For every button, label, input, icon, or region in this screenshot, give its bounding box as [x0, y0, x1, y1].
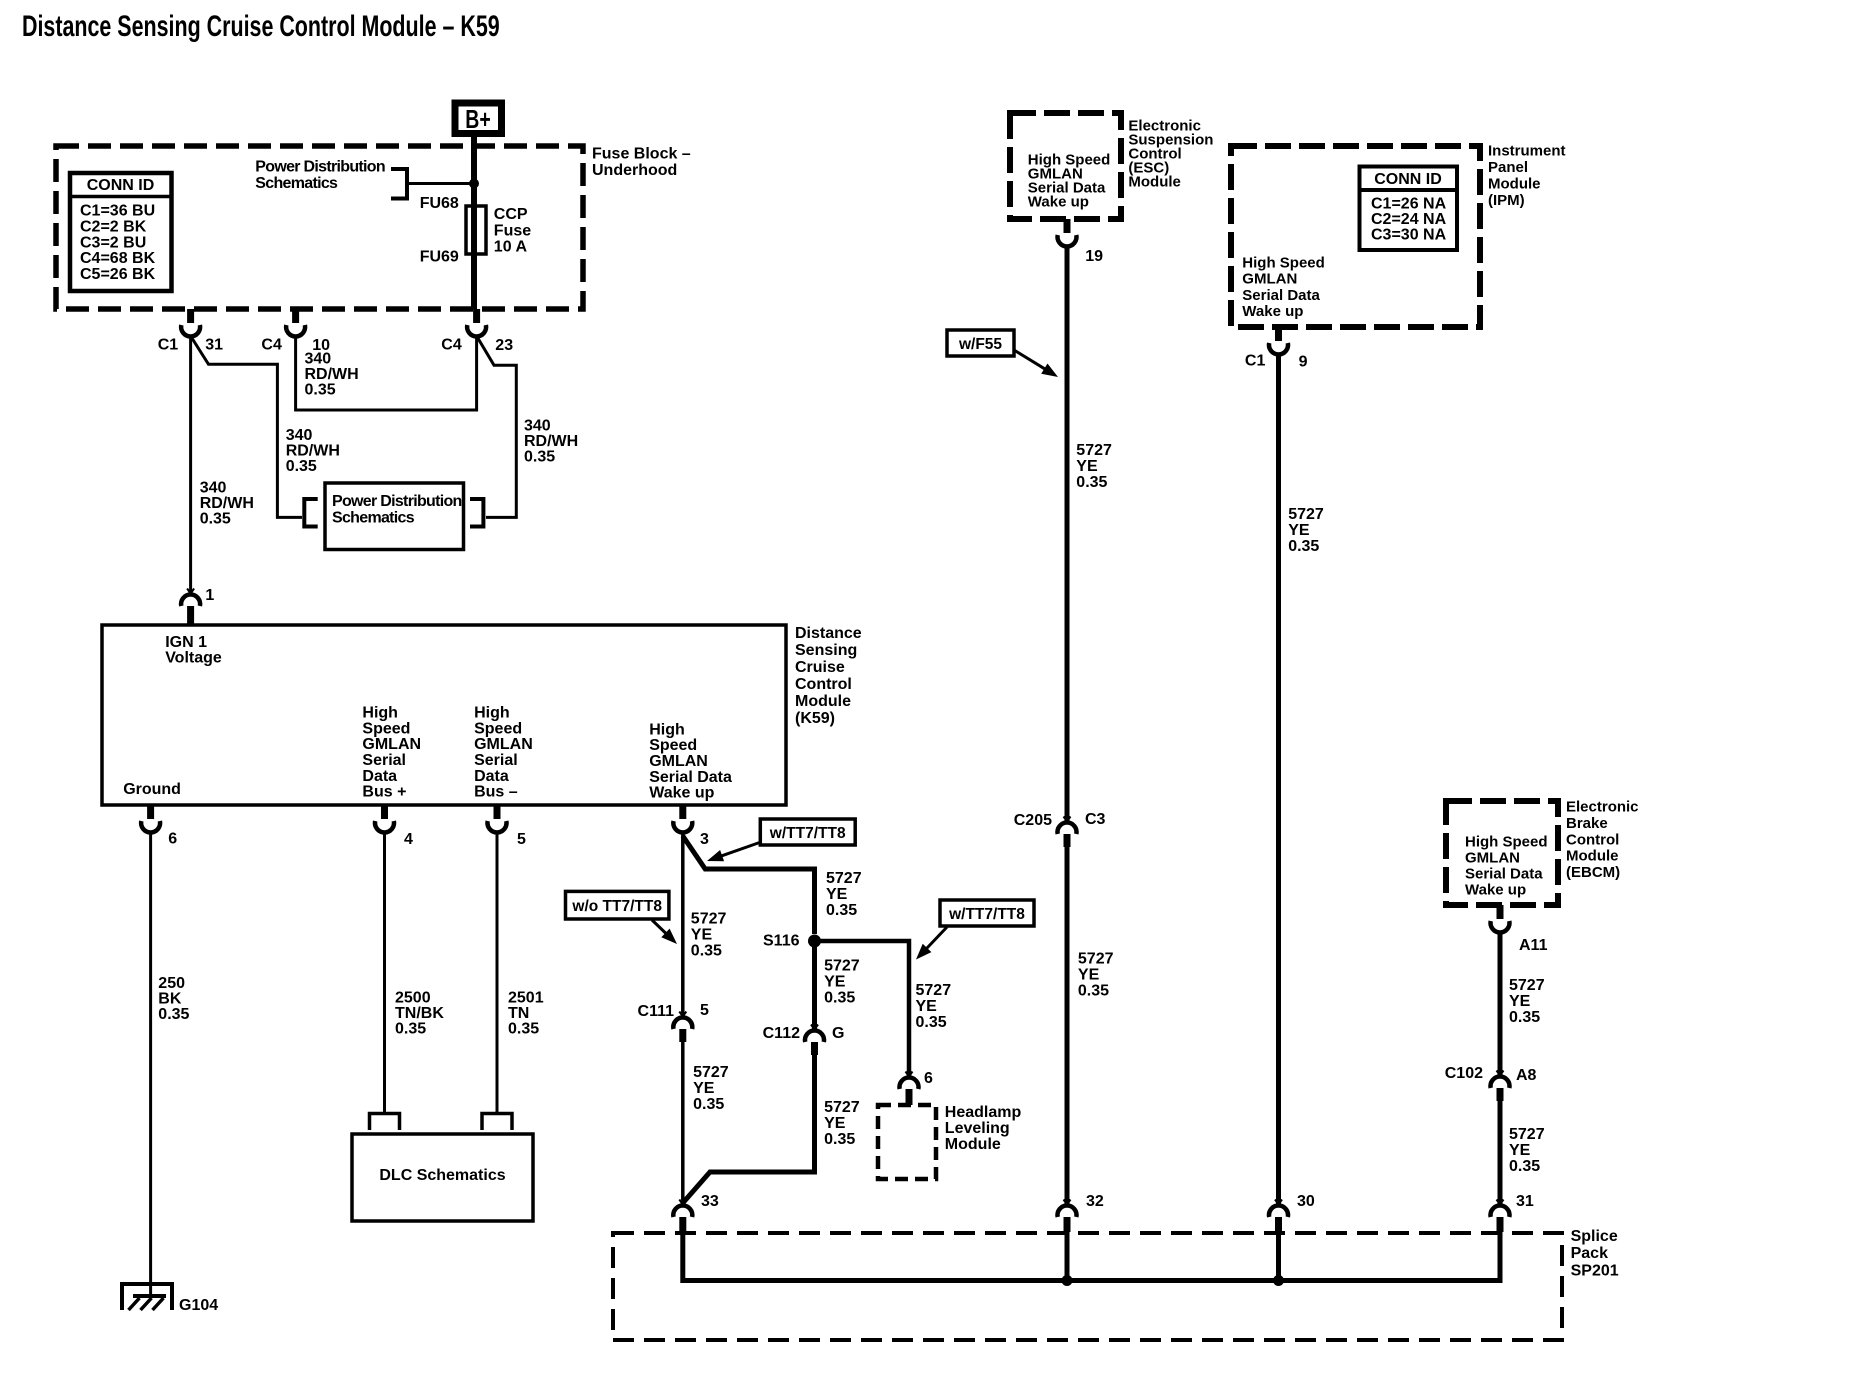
- svg-text:250: 250: [158, 975, 185, 992]
- svg-text:Wake up: Wake up: [1465, 882, 1526, 899]
- label 5 (C111 pin): [700, 1002, 709, 1019]
- label C112: [763, 1025, 800, 1042]
- svg-text:0.35: 0.35: [691, 943, 722, 960]
- svg-text:Wake up: Wake up: [649, 785, 714, 802]
- connector pin 32 (splice pack): [1058, 1200, 1077, 1233]
- wire 2500 TN/BK (pin 4 to DLC): [383, 833, 386, 1114]
- svg-text:DLC Schematics: DLC Schematics: [379, 1167, 505, 1184]
- label Splice Pack SP201: [1571, 1228, 1619, 1280]
- connector pin 31 (splice pack): [1491, 1200, 1510, 1233]
- svg-text:GMLAN: GMLAN: [1242, 271, 1297, 288]
- svg-text:GMLAN: GMLAN: [362, 736, 421, 753]
- connector pin 30 (splice pack): [1269, 1200, 1288, 1233]
- svg-text:Module: Module: [945, 1136, 1001, 1153]
- svg-text:Speed: Speed: [649, 737, 697, 754]
- svg-text:Data: Data: [362, 768, 397, 785]
- svg-text:1: 1: [205, 587, 214, 604]
- svg-text:w/TT7/TT8: w/TT7/TT8: [948, 906, 1025, 923]
- connector pin 5 (Bus -): [488, 805, 507, 832]
- svg-text:C4=68 BK: C4=68 BK: [80, 250, 156, 267]
- wire B+ feed (340 circuit through fuse): [471, 137, 477, 309]
- svg-text:Schematics: Schematics: [255, 175, 338, 192]
- label G104: [179, 1297, 218, 1314]
- svg-text:RD/WH: RD/WH: [524, 433, 578, 450]
- svg-text:Power Distribution: Power Distribution: [255, 159, 385, 176]
- label Electronic Suspension Control (ESC) Module: [1128, 118, 1213, 191]
- connector C1 pin 31: [181, 309, 200, 336]
- label 31: [205, 337, 223, 354]
- svg-text:Serial Data: Serial Data: [1465, 866, 1543, 883]
- svg-text:Bus +: Bus +: [362, 784, 406, 801]
- label 5727 YE 0.35 (below C205): [1078, 951, 1114, 1000]
- wire 250 BK to ground: [149, 833, 152, 1296]
- svg-text:w/o TT7/TT8: w/o TT7/TT8: [571, 898, 662, 915]
- svg-text:Fuse Block –: Fuse Block –: [592, 146, 691, 163]
- callout w/TT7/TT8 (pin 3): [707, 819, 855, 861]
- junction dot (pin 30 bus): [1273, 1275, 1284, 1286]
- svg-text:Headlamp: Headlamp: [945, 1104, 1022, 1121]
- svg-text:0.35: 0.35: [200, 511, 231, 528]
- svg-text:YE: YE: [824, 974, 846, 991]
- wire S116 to C112: [812, 946, 817, 1030]
- label 31: [1516, 1193, 1534, 1210]
- label 6 (K59 pin): [168, 830, 177, 847]
- svg-text:w/TT7/TT8: w/TT7/TT8: [769, 825, 846, 842]
- svg-text:C1=26 NA: C1=26 NA: [1371, 196, 1447, 213]
- connector C111 pin 5: [673, 1012, 692, 1043]
- svg-text:C205: C205: [1014, 812, 1052, 829]
- svg-text:C3: C3: [1085, 811, 1106, 828]
- svg-text:TN/BK: TN/BK: [395, 1005, 444, 1022]
- svg-text:Underhood: Underhood: [592, 162, 677, 179]
- svg-text:5727: 5727: [826, 870, 862, 887]
- conn id table (IPM): [1360, 167, 1458, 251]
- label 5727 YE 0.35 (S116 upper): [826, 870, 862, 919]
- svg-text:C4: C4: [441, 337, 462, 354]
- svg-text:Module: Module: [1128, 174, 1181, 191]
- svg-text:32: 32: [1086, 1193, 1104, 1210]
- electronic suspension control module dashed box: [1010, 113, 1121, 219]
- svg-text:0.35: 0.35: [824, 990, 855, 1007]
- svg-text:Power Distribution: Power Distribution: [332, 493, 462, 510]
- wire C102 to splice pack pin 31: [1498, 1101, 1503, 1205]
- svg-text:Distance Sensing Cruise Contro: Distance Sensing Cruise Control Module –…: [22, 8, 500, 43]
- svg-text:C2=2 BK: C2=2 BK: [80, 219, 147, 236]
- power distribution schematics reference box: [325, 483, 464, 550]
- label FU69: [420, 249, 459, 266]
- svg-text:Schematics: Schematics: [332, 509, 415, 526]
- junction dot (B+ feed): [469, 179, 479, 189]
- fuse block - underhood (dashed box): [56, 146, 583, 309]
- svg-text:0.35: 0.35: [1509, 1009, 1540, 1026]
- wire 5727 YE (ESC to C205): [1065, 247, 1070, 822]
- connector pin 4 (Bus +): [375, 805, 394, 832]
- svg-text:Bus –: Bus –: [474, 784, 518, 801]
- svg-text:Serial: Serial: [474, 752, 518, 769]
- connector pin 6 (headlamp leveling module): [899, 1072, 918, 1106]
- connector pin 1 (K59 IGN 1): [181, 589, 200, 626]
- wire C4/23 branch to power distribution: [477, 336, 517, 517]
- svg-text:5: 5: [517, 831, 526, 848]
- bracket DLC pin 5: [482, 1114, 512, 1131]
- label 19: [1085, 248, 1103, 265]
- splice S116 junction dot: [808, 935, 821, 948]
- label 340 RD/WH 0.35 (C4/23 branch): [524, 418, 578, 466]
- svg-text:Instrument: Instrument: [1488, 143, 1566, 160]
- label High Speed GMLAN Serial Data Wake up (IPM): [1242, 255, 1325, 321]
- svg-text:Speed: Speed: [362, 720, 410, 737]
- bracket right (power distribution box): [470, 499, 483, 527]
- svg-text:10 A: 10 A: [494, 239, 528, 256]
- svg-text:RD/WH: RD/WH: [305, 366, 359, 383]
- svg-text:2501: 2501: [508, 990, 544, 1007]
- wire 5727 YE (EBCM to C102): [1498, 933, 1503, 1076]
- svg-text:5727: 5727: [824, 958, 860, 975]
- connector C1 pin 9 (IPM): [1269, 327, 1288, 354]
- svg-text:C1: C1: [1245, 353, 1266, 370]
- label 2500 TN/BK 0.35: [395, 990, 444, 1038]
- label 5727 YE 0.35 (pin3 trunk): [691, 911, 727, 960]
- svg-text:5: 5: [700, 1002, 709, 1019]
- svg-text:C3=2 BU: C3=2 BU: [80, 234, 146, 251]
- svg-text:YE: YE: [824, 1115, 846, 1132]
- svg-text:S116: S116: [763, 932, 800, 949]
- distance sensing cruise control module K59 box: [102, 625, 786, 805]
- connector pin 6 (Ground): [141, 805, 160, 832]
- svg-text:Serial Data: Serial Data: [649, 769, 732, 786]
- svg-text:5727: 5727: [916, 982, 952, 999]
- label 5727 YE 0.35 (below C112): [824, 1099, 860, 1148]
- callout w/TT7/TT8 (headlamp branch): [916, 900, 1034, 960]
- bracket DLC pin 4: [370, 1114, 400, 1131]
- connector pin A11 (EBCM): [1491, 905, 1510, 932]
- wire pin 32 to bus: [1065, 1232, 1070, 1281]
- connector pin 19 (ESC): [1058, 219, 1077, 246]
- svg-text:YE: YE: [1078, 967, 1100, 984]
- svg-text:Sensing: Sensing: [795, 642, 857, 659]
- svg-text:0.35: 0.35: [395, 1021, 426, 1038]
- label 30: [1297, 1193, 1315, 1210]
- svg-text:G: G: [832, 1025, 844, 1042]
- svg-text:0.35: 0.35: [916, 1014, 947, 1031]
- svg-text:C102: C102: [1445, 1065, 1483, 1082]
- label C4 (pin 10): [261, 337, 282, 354]
- svg-text:0.35: 0.35: [826, 902, 857, 919]
- svg-text:High: High: [649, 721, 685, 738]
- svg-text:3: 3: [700, 831, 709, 848]
- label 5727 YE 0.35 (ESC wire): [1076, 442, 1112, 491]
- svg-text:5727: 5727: [824, 1099, 860, 1116]
- svg-text:YE: YE: [1076, 458, 1098, 475]
- label 33: [701, 1193, 719, 1210]
- svg-text:Leveling: Leveling: [945, 1120, 1010, 1137]
- svg-text:31: 31: [1516, 1193, 1534, 1210]
- connector C102 pin A8: [1491, 1071, 1510, 1102]
- DLC schematics reference box: [352, 1134, 533, 1221]
- wire C1/31 branch to power distribution: [191, 336, 302, 517]
- label A8: [1516, 1067, 1537, 1084]
- svg-text:Splice: Splice: [1571, 1228, 1618, 1245]
- svg-text:0.35: 0.35: [1078, 983, 1109, 1000]
- label 5 (K59 pin): [517, 831, 526, 848]
- svg-text:340: 340: [200, 480, 227, 497]
- label IGN 1 Voltage: [165, 634, 222, 667]
- svg-text:Distance: Distance: [795, 625, 862, 642]
- svg-text:YE: YE: [1509, 993, 1531, 1010]
- svg-text:C5=26 BK: C5=26 BK: [80, 266, 156, 283]
- wire C112 to splice pack pin 33: [683, 1055, 815, 1203]
- label A11: [1519, 937, 1548, 954]
- label C1: [158, 337, 179, 354]
- svg-text:Serial: Serial: [362, 752, 406, 769]
- svg-text:(EBCM): (EBCM): [1566, 864, 1620, 881]
- wire 5727 YE (pin 3 trunk upper): [681, 833, 685, 1017]
- wire C1/31 to pin 1 (340 RD/WH): [189, 337, 192, 594]
- svg-text:C111: C111: [638, 1003, 675, 1020]
- svg-text:Control: Control: [1566, 831, 1619, 848]
- label S116: [763, 932, 800, 949]
- svg-text:0.35: 0.35: [508, 1021, 539, 1038]
- svg-text:YE: YE: [826, 886, 848, 903]
- svg-text:B+: B+: [465, 104, 490, 133]
- label High Speed GMLAN Serial Data Wake up (K59): [649, 721, 732, 801]
- svg-text:0.35: 0.35: [1076, 474, 1107, 491]
- svg-text:GMLAN: GMLAN: [1465, 850, 1520, 867]
- callout w/F55: [947, 330, 1058, 377]
- label 3: [700, 831, 709, 848]
- label 340 RD/WH 0.35 (C1 branch): [286, 427, 340, 475]
- svg-text:Wake up: Wake up: [1028, 194, 1089, 211]
- svg-text:340: 340: [524, 418, 551, 435]
- wire pin 30 to bus: [1276, 1232, 1281, 1281]
- electronic brake control module dashed box: [1446, 801, 1558, 905]
- svg-text:TN: TN: [508, 1005, 529, 1022]
- connector C112 pin G: [805, 1025, 824, 1056]
- svg-text:Module: Module: [795, 693, 851, 710]
- svg-text:Module: Module: [1566, 848, 1619, 865]
- label High Speed GMLAN Serial Data Bus + (K59): [362, 705, 421, 801]
- wire 2501 TN (pin 5 to DLC): [496, 833, 499, 1114]
- svg-text:Voltage: Voltage: [165, 650, 222, 667]
- label FU68: [420, 195, 459, 212]
- svg-text:31: 31: [205, 337, 223, 354]
- label 32: [1086, 1193, 1104, 1210]
- svg-text:C1=36 BU: C1=36 BU: [80, 203, 155, 220]
- svg-text:YE: YE: [691, 927, 713, 944]
- svg-text:30: 30: [1297, 1193, 1315, 1210]
- label 6 (headlamp pin): [924, 1070, 933, 1087]
- label 5727 YE 0.35 (S116 lower): [824, 958, 860, 1007]
- svg-text:0.35: 0.35: [824, 1131, 855, 1148]
- label Distance Sensing Cruise Control Module (K59): [795, 625, 862, 727]
- title: [22, 8, 500, 43]
- bracket (power distribution top): [391, 169, 407, 199]
- conn id table (fuse block): [70, 173, 172, 291]
- svg-text:C1: C1: [158, 337, 179, 354]
- label 1: [205, 587, 214, 604]
- svg-text:CONN ID: CONN ID: [87, 177, 155, 194]
- svg-text:5727: 5727: [1078, 951, 1114, 968]
- label 340 RD/WH 0.35 (C1 pin 31 wire): [200, 480, 254, 528]
- svg-text:Ground: Ground: [123, 781, 181, 798]
- svg-text:C3=30 NA: C3=30 NA: [1371, 227, 1447, 244]
- svg-text:340: 340: [305, 351, 332, 368]
- svg-text:0.35: 0.35: [286, 458, 317, 475]
- svg-text:0.35: 0.35: [158, 1006, 189, 1023]
- splice pack bus wire: [683, 1232, 1500, 1281]
- label CCP Fuse 10 A: [494, 206, 531, 256]
- svg-text:5727: 5727: [1076, 442, 1112, 459]
- connector C4 pin 10: [286, 309, 305, 336]
- svg-text:33: 33: [701, 1193, 719, 1210]
- label 10: [312, 337, 330, 354]
- label Headlamp Leveling Module: [945, 1104, 1022, 1153]
- svg-text:YE: YE: [693, 1080, 715, 1097]
- svg-text:High: High: [362, 705, 398, 722]
- connector C205 pin C3: [1058, 817, 1077, 848]
- label 340 RD/WH 0.35 (pin 10 wire): [305, 351, 359, 399]
- wire 5727 YE (pin 3 trunk lower): [681, 1042, 685, 1205]
- label 250 BK 0.35: [158, 975, 189, 1023]
- svg-text:4: 4: [404, 831, 413, 848]
- label G: [832, 1025, 844, 1042]
- connector pin 3 (Wake up): [673, 805, 692, 832]
- label 2501 TN 0.35: [508, 990, 544, 1038]
- label Power Distribution Schematics (top): [255, 159, 385, 193]
- svg-text:BK: BK: [158, 991, 182, 1008]
- svg-text:IGN 1: IGN 1: [165, 634, 207, 651]
- ground symbol G104: [122, 1284, 172, 1310]
- svg-text:C2=24 NA: C2=24 NA: [1371, 211, 1447, 228]
- label High Speed GMLAN Serial Data Wake up (EBCM): [1465, 834, 1548, 899]
- svg-text:0.35: 0.35: [1509, 1158, 1540, 1175]
- wire C205 to splice pack pin 32: [1065, 847, 1070, 1205]
- label C4 (pin 23): [441, 337, 462, 354]
- svg-text:Brake: Brake: [1566, 815, 1608, 832]
- svg-text:Wake up: Wake up: [1242, 303, 1303, 320]
- svg-text:Panel: Panel: [1488, 159, 1528, 176]
- label C1 (IPM): [1245, 353, 1266, 370]
- junction dot (pin 32 bus): [1062, 1275, 1073, 1286]
- svg-text:0.35: 0.35: [524, 449, 555, 466]
- svg-text:C112: C112: [763, 1025, 800, 1042]
- svg-text:High: High: [474, 705, 510, 722]
- svg-text:CONN ID: CONN ID: [1374, 171, 1442, 188]
- svg-text:GMLAN: GMLAN: [649, 753, 708, 770]
- label 5727 YE 0.35 (EBCM upper): [1509, 977, 1545, 1026]
- svg-text:6: 6: [168, 830, 177, 847]
- svg-text:5727: 5727: [1288, 506, 1324, 523]
- label High Speed GMLAN Serial Data Bus - (K59): [474, 705, 533, 801]
- svg-text:High Speed: High Speed: [1465, 834, 1548, 851]
- svg-text:0.35: 0.35: [305, 382, 336, 399]
- svg-text:GMLAN: GMLAN: [474, 736, 533, 753]
- svg-text:FU68: FU68: [420, 195, 459, 212]
- svg-text:(K59): (K59): [795, 710, 835, 727]
- svg-text:Fuse: Fuse: [494, 222, 531, 239]
- svg-text:2500: 2500: [395, 990, 431, 1007]
- label Instrument Panel Module (IPM): [1488, 143, 1566, 209]
- svg-text:5727: 5727: [1509, 977, 1545, 994]
- svg-text:FU69: FU69: [420, 249, 459, 266]
- label Fuse Block - Underhood: [592, 146, 691, 180]
- svg-text:A11: A11: [1519, 937, 1548, 954]
- label 5727 YE 0.35 (headlamp branch): [916, 982, 952, 1031]
- svg-text:G104: G104: [179, 1297, 218, 1314]
- svg-text:Electronic: Electronic: [1566, 799, 1639, 816]
- svg-text:5727: 5727: [693, 1064, 729, 1081]
- svg-text:Control: Control: [795, 676, 852, 693]
- label 23: [495, 337, 513, 354]
- instrument panel module dashed box: [1231, 146, 1480, 327]
- label C3: [1085, 811, 1106, 828]
- svg-text:Serial Data: Serial Data: [1242, 287, 1320, 304]
- wire 5727 YE (IPM to splice pack pin 30): [1276, 355, 1281, 1205]
- connector pin 33 (splice pack): [673, 1200, 692, 1233]
- svg-text:YE: YE: [1288, 522, 1310, 539]
- label High Speed GMLAN Serial Data Wake up (ESC): [1028, 152, 1111, 211]
- svg-text:5727: 5727: [1509, 1126, 1545, 1143]
- callout w/o TT7/TT8: [566, 891, 678, 944]
- battery positive voltage symbol B+: [455, 103, 502, 134]
- label 5727 YE 0.35 (EBCM lower): [1509, 1126, 1545, 1175]
- svg-text:RD/WH: RD/WH: [200, 495, 254, 512]
- bracket left (power distribution box): [304, 499, 317, 527]
- label 5727 YE 0.35 (IPM wire): [1288, 506, 1324, 555]
- wire branch pin3 to S116 (5727 YE): [683, 836, 815, 934]
- svg-text:Speed: Speed: [474, 720, 522, 737]
- label C102: [1445, 1065, 1483, 1082]
- svg-text:Pack: Pack: [1571, 1245, 1608, 1262]
- svg-text:23: 23: [495, 337, 513, 354]
- label C111: [638, 1003, 675, 1020]
- label Electronic Brake Control Module (EBCM): [1566, 799, 1639, 882]
- svg-text:6: 6: [924, 1070, 933, 1087]
- svg-text:A8: A8: [1516, 1067, 1537, 1084]
- svg-text:0.35: 0.35: [1288, 538, 1319, 555]
- connector C4 pin 23: [467, 309, 486, 336]
- label C205: [1014, 812, 1052, 829]
- svg-text:0.35: 0.35: [693, 1096, 724, 1113]
- splice pack SP201 dashed box: [613, 1233, 1562, 1340]
- label 4: [404, 831, 413, 848]
- svg-text:Data: Data: [474, 768, 509, 785]
- label 9: [1299, 354, 1308, 371]
- svg-text:CCP: CCP: [494, 206, 528, 223]
- svg-text:YE: YE: [1509, 1142, 1531, 1159]
- label Ground: [123, 781, 181, 798]
- wire power distribution to B+ feed: [407, 182, 474, 185]
- svg-text:Module: Module: [1488, 176, 1541, 193]
- svg-text:High Speed: High Speed: [1242, 255, 1325, 272]
- svg-text:C4: C4: [261, 337, 282, 354]
- svg-text:19: 19: [1085, 248, 1103, 265]
- svg-text:RD/WH: RD/WH: [286, 442, 340, 459]
- svg-text:5727: 5727: [691, 911, 727, 928]
- label 5727 YE 0.35 (below C111): [693, 1064, 729, 1113]
- svg-text:YE: YE: [916, 998, 938, 1015]
- svg-text:w/F55: w/F55: [958, 336, 1002, 353]
- fuse FU68/FU69 CCP 10A: [466, 206, 486, 254]
- wire S116 to headlamp leveling module (5727 YE): [815, 941, 910, 1077]
- svg-text:9: 9: [1299, 354, 1308, 371]
- svg-text:SP201: SP201: [1571, 1262, 1619, 1279]
- headlamp leveling module dashed box: [878, 1105, 936, 1179]
- svg-text:340: 340: [286, 427, 313, 444]
- svg-text:(IPM): (IPM): [1488, 192, 1525, 209]
- wire C4/10 loop to C4/23 (340 RD/WH): [296, 337, 477, 410]
- svg-text:Cruise: Cruise: [795, 659, 845, 676]
